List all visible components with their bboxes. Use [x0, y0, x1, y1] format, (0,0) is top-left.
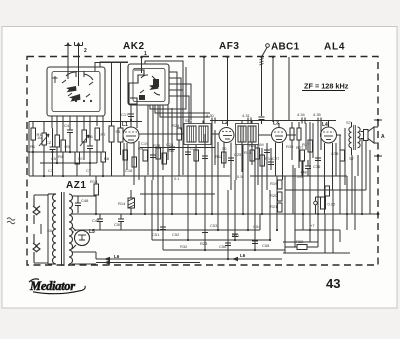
resistor R25	[194, 150, 199, 176]
svg-text:C7: C7	[86, 168, 92, 173]
wires: drops from S1 to component row	[52, 116, 103, 152]
coil S4	[118, 122, 123, 156]
capacitor C50	[114, 214, 124, 230]
resistor R9	[138, 146, 148, 161]
resistor R36	[340, 150, 345, 161]
svg-text:4.30: 4.30	[206, 113, 215, 118]
wires left column top stubs	[57, 120, 103, 152]
wires under AL4 extra	[285, 123, 366, 190]
capacitor C49	[92, 214, 103, 230]
svg-text:L3: L3	[273, 121, 279, 127]
svg-text:C53: C53	[210, 223, 218, 228]
wires: routing loops right of S2	[95, 61, 210, 175]
svg-text:4.35: 4.35	[313, 112, 322, 117]
junction dots mid-left	[32, 151, 104, 177]
variable arrow on R6	[80, 135, 89, 146]
svg-text:0.1: 0.1	[174, 176, 180, 181]
resistor R34	[123, 150, 128, 160]
capacitor C25	[228, 152, 242, 161]
wires verticals to bottom buses	[145, 123, 370, 259]
svg-text:AF3: AF3	[219, 41, 239, 52]
wires under L2	[218, 142, 242, 190]
resistor R3	[55, 135, 60, 163]
left column labels	[30, 135, 110, 161]
rotor arrow 1 of S1	[66, 86, 77, 92]
svg-text:R15: R15	[244, 150, 252, 155]
svg-text:C2: C2	[46, 140, 52, 145]
resistor R20	[270, 192, 282, 201]
mains transformer T1 primary	[47, 194, 56, 264]
svg-text:C38: C38	[331, 151, 339, 156]
svg-text:L6: L6	[114, 254, 120, 259]
svg-text:50: 50	[222, 146, 227, 151]
svg-text:R5: R5	[65, 144, 71, 149]
svg-text:2: 2	[84, 48, 87, 54]
svg-text:C52: C52	[172, 232, 180, 237]
svg-text:C50: C50	[114, 222, 122, 227]
IF transformer S6	[236, 124, 259, 145]
capacitor C51 ticks	[160, 227, 166, 230]
rectifier tube L5 AZ1	[72, 227, 95, 249]
switch contacts S2	[140, 75, 160, 95]
svg-text:R19: R19	[270, 181, 278, 186]
svg-text:L1: L1	[122, 122, 128, 128]
svg-text:C56: C56	[219, 244, 227, 249]
capacitor C4	[64, 123, 73, 152]
svg-text:2M: 2M	[297, 174, 303, 179]
resistor R16	[260, 155, 273, 166]
earth terminal T	[75, 42, 83, 57]
resistor R15	[244, 150, 255, 161]
wires under L1	[124, 120, 139, 185]
svg-text:C36: C36	[313, 164, 321, 169]
capacitor C31 on grid bus	[242, 113, 251, 124]
top-cap circle of ABC1	[266, 44, 270, 48]
cathode tab S2	[139, 95, 145, 100]
svg-text:A: A	[381, 134, 385, 140]
capacitor C48	[75, 196, 89, 213]
band switch contacts S1	[62, 71, 93, 97]
output transformer S7	[346, 120, 360, 155]
wire diode plate lead	[288, 57, 290, 121]
capacitor C30 on grid bus	[206, 113, 215, 124]
capacitor C35 on grid bus	[313, 112, 322, 124]
svg-text:+7: +7	[310, 223, 315, 228]
svg-text:ZF = 128 kHz: ZF = 128 kHz	[304, 82, 349, 91]
resistor R10	[156, 148, 161, 159]
variable arrow on R2	[39, 134, 49, 146]
svg-text:4.31: 4.31	[242, 113, 251, 118]
ground tab in S1	[53, 76, 58, 83]
capacitor C26	[264, 150, 270, 153]
svg-text:S5: S5	[185, 118, 191, 123]
wires: drops from S2 bundle to lower circuit	[131, 105, 172, 190]
value labels scatter	[48, 141, 355, 249]
resistor R14 hatched	[118, 190, 135, 214]
resistor R11	[162, 148, 175, 164]
resistor R18	[314, 197, 336, 214]
trimmer dots S1	[75, 100, 77, 102]
svg-text:R30: R30	[286, 144, 294, 149]
svg-text:C48: C48	[81, 198, 89, 203]
resistor R5	[75, 152, 80, 176]
capacitor C20	[150, 155, 156, 158]
wire grid-cap bus right	[210, 120, 336, 122]
resistor R17	[302, 140, 313, 152]
resistor R6	[82, 130, 93, 160]
svg-text:R4: R4	[58, 154, 64, 159]
capacitor C22	[169, 147, 175, 150]
capacitor C37	[305, 160, 311, 176]
svg-text:C4: C4	[64, 123, 70, 128]
junction dots bottom	[95, 213, 380, 261]
svg-text:C58: C58	[262, 243, 270, 248]
svg-text:R32: R32	[180, 244, 188, 249]
capacitor C23	[202, 145, 208, 170]
svg-text:L6: L6	[240, 253, 246, 258]
svg-text:C27: C27	[272, 156, 280, 161]
wires bundle left of L2	[212, 123, 215, 176]
IF transformer S5	[184, 118, 211, 145]
resistor R22	[285, 214, 318, 250]
capacitor C58 ticks	[252, 241, 258, 244]
svg-text:R23: R23	[200, 241, 208, 246]
svg-text:C18: C18	[125, 168, 133, 173]
svg-text:0.5: 0.5	[237, 174, 243, 179]
capacitor C21	[185, 145, 198, 165]
svg-text:Mediator: Mediator	[29, 279, 75, 293]
resistor R4	[58, 140, 66, 176]
mains input plug P1	[33, 198, 40, 224]
capacitor C17	[121, 112, 134, 121]
svg-text:AZ1: AZ1	[66, 180, 86, 191]
wire antenna into coil box	[67, 57, 69, 79]
svg-text:R22: R22	[296, 239, 304, 244]
svg-text:R27: R27	[296, 145, 304, 150]
resistor R2	[42, 122, 47, 177]
svg-text:AL4: AL4	[324, 42, 345, 53]
svg-text:R21: R21	[270, 204, 278, 209]
wire AF3 grid	[226, 56, 228, 126]
resistor R12	[215, 152, 226, 163]
svg-text:C3: C3	[48, 168, 54, 173]
svg-text:R14: R14	[118, 201, 126, 206]
svg-text:1M: 1M	[258, 142, 264, 147]
capacitor C56 ticks	[225, 243, 231, 246]
capacitor C54 ticks	[232, 234, 238, 237]
capacitor C27	[268, 156, 280, 165]
wire earth into coil box	[78, 57, 80, 86]
svg-text:R13: R13	[90, 179, 98, 184]
svg-text:L4: L4	[322, 122, 328, 128]
resistor R33	[325, 186, 330, 196]
svg-text:S7: S7	[346, 120, 352, 125]
svg-text:R11: R11	[167, 148, 175, 153]
chassis dashed boundary	[27, 57, 378, 266]
wire bus mid-left	[27, 121, 347, 177]
tube L1 AK2	[122, 122, 139, 148]
svg-text:C19: C19	[141, 141, 149, 146]
dial lamp line L6	[96, 253, 282, 265]
resistor R35	[132, 157, 137, 167]
tube L3 ABC1	[272, 121, 287, 149]
wires transformer secondary taps	[72, 196, 378, 264]
anode tab S2	[153, 79, 159, 87]
capacitor C53 ticks	[202, 230, 208, 233]
shielded tuning-coil unit S1	[47, 67, 105, 116]
coil S3	[109, 122, 121, 177]
loudspeaker	[361, 127, 386, 143]
capacitor C6	[87, 135, 93, 176]
svg-text:C25: C25	[234, 152, 242, 157]
svg-text:C5: C5	[51, 156, 57, 161]
svg-text:1: 1	[144, 51, 147, 57]
resistor R7	[95, 128, 106, 163]
resistor R8	[101, 152, 106, 176]
resistor R19	[270, 180, 282, 189]
svg-text:R9: R9	[138, 146, 144, 151]
svg-text:43: 43	[326, 276, 340, 291]
svg-text:R28: R28	[153, 143, 161, 148]
capacitor C2	[46, 128, 56, 176]
svg-text:R8: R8	[104, 156, 110, 161]
svg-text:C54: C54	[253, 224, 261, 229]
wires mains to primary	[34, 194, 48, 264]
rotor arrow of S2	[149, 84, 158, 90]
rotor arrow 2 of S1	[69, 94, 80, 102]
tube L2 AF3	[219, 120, 234, 148]
resistor R13	[90, 176, 99, 214]
resistor R21	[270, 203, 282, 212]
svg-text:R26: R26	[249, 143, 257, 148]
mains AC squiggle	[7, 218, 15, 224]
svg-text:ABC1: ABC1	[271, 42, 300, 53]
svg-text:C24: C24	[166, 142, 174, 147]
resistor R1	[31, 122, 42, 177]
wire AVC bus top-left	[29, 122, 142, 177]
wire ABC1 top cap	[259, 48, 268, 125]
svg-text:AK2: AK2	[123, 41, 145, 52]
mains input plug P2	[33, 234, 40, 261]
svg-text:C17: C17	[121, 112, 129, 117]
resistor-capacitor group after L3	[290, 122, 301, 168]
svg-text:1M: 1M	[37, 135, 43, 140]
wire double drop	[292, 165, 294, 214]
node 1 wire from AK2 label	[140, 51, 147, 73]
svg-text:50: 50	[78, 156, 83, 161]
mains transformer T1 core	[62, 192, 65, 266]
svg-text:R20: R20	[270, 193, 278, 198]
shielded oscillator-coil unit S2	[128, 64, 169, 105]
wire L1 plate lead	[203, 56, 205, 124]
svg-text:R31: R31	[232, 233, 240, 238]
svg-text:S7: S7	[349, 156, 355, 161]
tube L4 AL4	[321, 121, 342, 150]
resistor R27	[296, 145, 305, 176]
resistor R24	[172, 123, 182, 176]
wire HT bus	[74, 214, 260, 230]
svg-text:C51: C51	[152, 232, 160, 237]
terminal ticks on right border	[374, 119, 382, 158]
resistor R26	[249, 143, 260, 159]
antenna terminal A	[65, 42, 72, 57]
wire bottom buses	[140, 194, 350, 253]
svg-text:0.20: 0.20	[328, 202, 337, 207]
capacitor C36	[313, 158, 321, 169]
wire ABC1 heater tap	[272, 56, 274, 122]
svg-text:C49: C49	[92, 218, 100, 223]
svg-text:R7: R7	[101, 132, 107, 137]
wires under L4	[310, 122, 362, 214]
Mediator logo	[29, 279, 85, 294]
svg-text:R24: R24	[172, 123, 180, 128]
svg-text:R1: R1	[30, 144, 36, 149]
wires under L3	[248, 142, 283, 190]
mains transformer T1 secondary	[69, 194, 73, 264]
capacitor C34 on grid bus	[297, 112, 306, 124]
svg-text:4.34: 4.34	[297, 112, 306, 117]
svg-text:R12: R12	[215, 154, 223, 159]
